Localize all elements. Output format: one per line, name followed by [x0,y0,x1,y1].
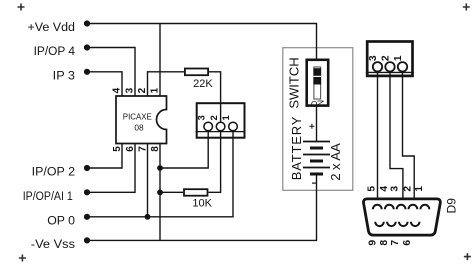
wire +Ve Vdd rail to switch [87,24,317,61]
registration mark bottom-left [19,255,26,262]
svg-text:2 x AA: 2 x AA [328,143,343,181]
wire ground branch to connector pin3 [160,132,208,169]
node dot IP/OP 2 [84,165,90,171]
svg-text:5: 5 [366,186,377,192]
wire pin2 to 22K left [148,72,185,96]
wire OP 0 row to connector pin1 [87,132,233,217]
D9 pin 5 arc [373,205,382,209]
svg-text:7: 7 [390,240,401,246]
resistor R2 10K [184,189,208,196]
battery enclosure box [283,48,353,191]
connector J2 base strip [366,71,414,73]
svg-text:1: 1 [221,114,232,120]
svg-text:8: 8 [150,146,161,152]
connector J2 pin 2 circle [385,62,394,71]
svg-text:PICAXE: PICAXE [123,112,152,122]
wire 22K right to connector pin2 [209,72,221,122]
svg-text:1: 1 [414,186,425,192]
svg-text:3: 3 [390,186,401,192]
resistor R1 22K [185,69,208,76]
svg-text:8: 8 [379,240,390,246]
wire pin8 ground vertical [159,144,161,241]
svg-text:SWITCH: SWITCH [286,57,301,108]
connector J2 pin 3 circle [373,62,382,71]
connector J1 pin 2 circle [216,122,225,131]
wire pin1 to +Ve rail [159,24,161,97]
svg-text:3: 3 [196,115,207,120]
svg-text:22K: 22K [193,78,213,90]
wire right connector pin1 to D9 pin2 [403,72,415,204]
wire pin7 to OP 0 row [147,144,149,217]
IC U1 PICAXE 08 body with notch [116,96,167,144]
D9 pin 1 arc [420,205,429,209]
battery B1 cells [303,141,330,143]
svg-text:2: 2 [209,115,220,120]
svg-text:BATTERY: BATTERY [289,116,304,180]
junction dot pin8/connector pin3 [157,165,163,171]
node dot IP 3 [84,69,90,75]
svg-text:2: 2 [380,55,391,61]
wire IP/OP 2 to pin5 [87,144,122,169]
junction dot pin7/OP0 [145,214,151,220]
svg-text:1: 1 [149,87,160,93]
connector J2 cable-side header box [367,42,412,76]
switch S1 box [307,60,329,106]
D9 pin 7 arc [399,222,408,226]
junction dot pin8/10K [157,189,163,195]
svg-text:IP/OP/AI 1: IP/OP/AI 1 [23,189,73,203]
svg-text:IP/OP 2: IP/OP 2 [32,165,75,179]
svg-text:+Ve Vdd: +Ve Vdd [28,20,76,34]
D9 serial connector outline [363,199,440,235]
svg-text:IP 3: IP 3 [53,69,75,83]
wire IP 3 to pin4 [87,72,122,96]
svg-text:6: 6 [402,240,413,246]
svg-text:7: 7 [138,146,149,152]
wire IP/OP 4 to pin3 [87,48,135,97]
D9 pin 6 arc [411,222,420,226]
wire switch bottom to battery positive [316,106,318,142]
wire -Ve Vss rail to battery negative [87,174,317,240]
svg-text:N: N [315,100,325,106]
svg-text:6: 6 [125,146,136,152]
registration mark top-left [18,4,25,11]
wire ground to 10K left [160,191,183,193]
switch S1 knob [313,68,321,84]
D9 pin 8 arc [387,222,396,226]
D9 pin 9 arc [375,222,384,226]
switch S1 slider track [314,67,321,99]
svg-text:OP 0: OP 0 [47,214,75,228]
battery B1 minus sign [312,182,316,184]
connector J1 pin 3 circle [204,122,213,131]
connector J2 pin 1 circle [398,62,407,71]
wire right connector pin2 to D9 pin3 [390,72,403,204]
connector J1 pin 1 circle [229,122,238,131]
svg-text:08: 08 [134,123,144,133]
svg-text:1: 1 [393,55,404,61]
svg-text:5: 5 [112,146,123,152]
svg-text:-Ve Vss: -Ve Vss [31,237,75,251]
svg-text:IP/OP 4: IP/OP 4 [34,44,75,58]
D9 pin 3 arc [397,205,406,209]
D9 pin 2 arc [409,205,418,209]
wire 10K right to connector pin2 bottom [209,132,221,193]
svg-text:2: 2 [137,87,148,93]
svg-text:9: 9 [368,240,379,246]
svg-text:D9: D9 [445,198,459,214]
node dot OP 0 [84,214,90,220]
svg-text:3: 3 [368,55,379,61]
battery B1 plus sign [309,124,314,129]
registration mark top-right [463,4,470,11]
wire IP/OP/AI 1 to pin6 [87,144,135,193]
svg-text:4: 4 [111,87,122,93]
svg-text:3: 3 [124,87,135,93]
D9 pin 4 arc [385,205,394,209]
registration mark bottom-right [464,253,471,260]
svg-text:10K: 10K [192,198,212,210]
svg-text:2: 2 [402,186,413,192]
node dot IP/OP 4 [84,44,90,50]
wire right connector pin3 to D9 pin5 [377,72,379,204]
connector J1 base strip [196,131,246,133]
node dot +Ve Vdd [84,20,90,26]
node dot IP/OP/AI 1 [84,189,90,195]
svg-text:4: 4 [379,186,390,192]
node dot -Ve Vss [84,237,90,243]
connector J1 programming header box [197,103,245,138]
